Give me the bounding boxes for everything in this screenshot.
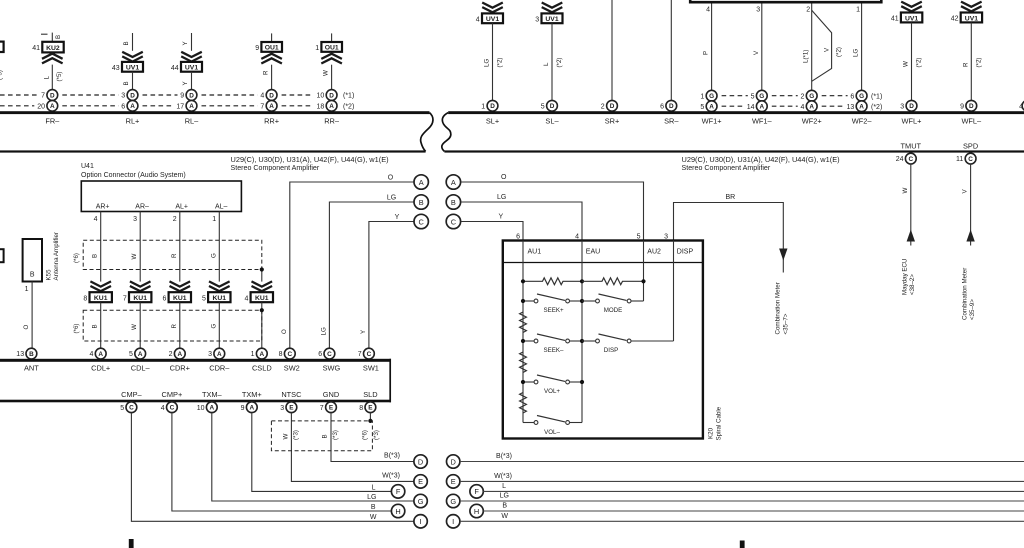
off-page arrow (up) to Combination Meter: [966, 230, 974, 242]
pin 20 A (FR-): [47, 100, 58, 111]
svg-text:UV1: UV1: [905, 15, 918, 22]
connector arrows (female, up): [42, 54, 63, 64]
wire WF1-: [761, 4, 763, 92]
dashed option wire, D row: [0, 94, 314, 96]
svg-text:5: 5: [129, 351, 133, 358]
svg-text:VOL–: VOL–: [544, 429, 560, 436]
svg-text:C: C: [170, 405, 175, 412]
svg-text:OU1: OU1: [325, 45, 339, 52]
resistor on AU1 bus (lower): [520, 393, 527, 413]
svg-text:KU1: KU1: [255, 295, 269, 302]
svg-text:6: 6: [516, 234, 520, 241]
wire B right: [483, 510, 1024, 512]
pin 2 A (CDR+): [174, 348, 185, 359]
shield dashed box (upper): [83, 240, 262, 269]
svg-text:C: C: [451, 217, 457, 226]
svg-text:A: A: [217, 351, 222, 358]
svg-text:9: 9: [241, 405, 245, 412]
connector 4 UV1: [482, 13, 503, 23]
svg-text:SW2: SW2: [284, 363, 300, 372]
svg-text:7: 7: [358, 351, 362, 358]
pin 8 E (SLD): [365, 402, 376, 413]
svg-text:W: W: [902, 188, 909, 194]
svg-text:R: R: [171, 324, 178, 329]
svg-text:I: I: [420, 517, 422, 526]
svg-text:KU1: KU1: [173, 295, 187, 302]
pin 18 A (RR-): [326, 100, 337, 111]
pin 4 A (WF2+): [806, 101, 817, 112]
pin 3 D (RL+): [127, 90, 138, 101]
wire CMP+ to H: [172, 413, 392, 511]
svg-text:B: B: [92, 324, 99, 328]
svg-text:3: 3: [535, 16, 539, 23]
wire SW2: [290, 182, 414, 348]
wire RR+ to amplifier: [271, 65, 273, 90]
svg-text:6: 6: [660, 103, 664, 110]
connector 6 KU1: [169, 292, 191, 302]
svg-text:KU1: KU1: [133, 295, 147, 302]
svg-text:6: 6: [162, 295, 166, 302]
svg-text:5: 5: [541, 103, 545, 110]
svg-text:SLD: SLD: [363, 390, 377, 399]
svg-text:E: E: [329, 405, 334, 412]
wire WF1+: [711, 4, 713, 92]
joint connector D (right half): [447, 455, 460, 468]
connector 9 OU1: [261, 42, 282, 52]
svg-text:D: D: [50, 92, 55, 99]
off-page arrow (down) to Combination Meter: [779, 249, 787, 261]
AU1 bus wire: [522, 241, 524, 423]
shield junction dot: [368, 419, 372, 423]
svg-text:Y: Y: [395, 214, 400, 221]
wire BR from DISP to Combination Meter: [674, 203, 784, 273]
svg-text:MODE: MODE: [604, 307, 623, 314]
svg-text:6: 6: [850, 93, 854, 100]
switch VOL-: [523, 422, 534, 424]
pin 10 A (TXM-): [206, 402, 217, 413]
svg-text:SEEK+: SEEK+: [543, 307, 564, 314]
wire SWG: [329, 202, 413, 348]
svg-text:C: C: [908, 156, 913, 163]
svg-text:WFL+: WFL+: [902, 117, 922, 126]
connector arrows (male, down): [181, 52, 202, 62]
junction dot AU2/R: [641, 279, 645, 283]
svg-text:W(*3): W(*3): [382, 473, 400, 480]
wire TXM+ to F: [252, 413, 392, 492]
svg-text:E: E: [451, 477, 456, 486]
wire CDL- lower: [139, 302, 141, 348]
svg-text:Y: Y: [182, 81, 189, 85]
svg-text:4: 4: [260, 93, 264, 100]
svg-text:C: C: [287, 351, 292, 358]
joint connector A (right half): [446, 175, 460, 189]
svg-text:D: D: [669, 103, 674, 110]
wire SL-: [551, 23, 553, 100]
svg-text:3: 3: [756, 7, 760, 14]
svg-text:H: H: [395, 507, 400, 516]
svg-text:Y: Y: [499, 214, 504, 221]
svg-text:7: 7: [123, 295, 127, 302]
svg-text:KU1: KU1: [94, 295, 108, 302]
pin 5 A (WF1+): [706, 101, 717, 112]
svg-text:A: A: [209, 405, 214, 412]
svg-text:F: F: [474, 487, 479, 496]
svg-text:B(*3): B(*3): [384, 453, 400, 460]
svg-text:SW1: SW1: [363, 363, 379, 372]
svg-text:LG: LG: [387, 194, 396, 201]
svg-text:<35–9>: <35–9>: [969, 299, 976, 320]
svg-text:2: 2: [601, 103, 605, 110]
svg-text:4: 4: [800, 104, 804, 111]
antenna amplifier K55 box: [23, 239, 42, 282]
svg-text:G: G: [210, 324, 217, 329]
svg-text:7: 7: [320, 405, 324, 412]
svg-text:R: R: [962, 62, 969, 67]
svg-text:W(*3): W(*3): [494, 473, 512, 480]
wire FR- to amplifier: [51, 65, 53, 90]
wire B(*3) right: [460, 461, 1024, 463]
svg-text:(*2): (*2): [343, 103, 354, 110]
svg-text:5: 5: [637, 234, 641, 241]
pin 5 G (WF1-): [756, 90, 767, 101]
svg-text:SL+: SL+: [486, 117, 499, 126]
pin 8 C (SW2): [284, 348, 295, 359]
amplifier top edge (right portion): [448, 111, 1024, 114]
svg-text:G: G: [210, 253, 217, 258]
svg-text:A: A: [809, 104, 814, 111]
svg-text:42: 42: [951, 16, 959, 23]
svg-text:O: O: [501, 174, 507, 181]
svg-text:Combination Meter: Combination Meter: [961, 268, 968, 320]
svg-text:(*6): (*6): [361, 430, 368, 440]
svg-text:GND: GND: [323, 390, 339, 399]
wire CDR- upper: [218, 212, 220, 282]
svg-text:DISP: DISP: [604, 347, 618, 354]
svg-text:K20: K20: [708, 427, 715, 439]
header separator line: [503, 262, 703, 264]
svg-text:7: 7: [41, 93, 45, 100]
amplifier bottom edge (left portion): [0, 150, 426, 152]
svg-text:<35–7>: <35–7>: [782, 313, 789, 334]
svg-text:E: E: [368, 405, 373, 412]
svg-text:(*2): (*2): [916, 58, 923, 68]
joint connector A (left half): [414, 175, 428, 189]
pin 6 G (WF2-): [856, 90, 867, 101]
wire WF2+: [811, 4, 813, 92]
svg-text:E: E: [289, 405, 294, 412]
dashed option wire, A row: [722, 105, 844, 107]
svg-text:(*2): (*2): [835, 47, 842, 57]
svg-text:2: 2: [806, 7, 810, 14]
wire CDR+ lower: [179, 302, 181, 348]
pin 6 C (SWG): [324, 348, 335, 359]
svg-text:RL+: RL+: [126, 117, 140, 126]
svg-text:V: V: [823, 47, 830, 52]
svg-text:U29(C), U30(D), U31(A), U42(F): U29(C), U30(D), U31(A), U42(F), U44(G), …: [231, 155, 389, 164]
svg-text:1: 1: [856, 7, 860, 14]
svg-text:44: 44: [171, 65, 179, 72]
wire CDL+ lower: [100, 302, 102, 348]
svg-text:TXM+: TXM+: [242, 390, 262, 399]
svg-text:W: W: [282, 434, 289, 440]
shield junction (upper): [260, 267, 264, 271]
svg-text:4: 4: [706, 7, 710, 14]
junction dot AU1/R: [521, 279, 525, 283]
svg-text:D: D: [269, 92, 274, 99]
wire CDL- upper: [139, 212, 141, 282]
svg-text:B: B: [92, 254, 99, 258]
joint connector I (right half): [447, 515, 460, 528]
wire SL+: [492, 23, 494, 100]
joint connector H (right half): [470, 504, 483, 517]
wire FR- above connector 41: [51, 33, 53, 42]
joint connector C (right half): [446, 214, 460, 228]
wire GND to D: [331, 413, 414, 462]
svg-text:B: B: [123, 81, 130, 85]
svg-text:FR–: FR–: [45, 117, 60, 126]
wire RL- from top: [191, 33, 193, 51]
svg-text:AL+: AL+: [175, 203, 188, 210]
wire RR- to amplifier: [331, 65, 333, 90]
AU2 wire: [643, 241, 645, 302]
pin 2 G (WF2+): [806, 90, 817, 101]
svg-text:UV1: UV1: [965, 15, 978, 22]
svg-text:RL–: RL–: [185, 117, 199, 126]
svg-text:3: 3: [121, 93, 125, 100]
svg-text:CDR+: CDR+: [170, 363, 190, 372]
svg-text:R: R: [171, 253, 178, 258]
svg-text:U41: U41: [81, 163, 94, 170]
pin 1 D (SL+): [487, 100, 498, 111]
svg-text:Option Connector (Audio System: Option Connector (Audio System): [81, 172, 186, 179]
svg-text:10: 10: [197, 405, 205, 412]
svg-text:CMP–: CMP–: [121, 390, 142, 399]
svg-text:2: 2: [169, 351, 173, 358]
wire RL+ from top: [132, 33, 134, 51]
svg-text:8: 8: [279, 351, 283, 358]
svg-text:A: A: [177, 351, 182, 358]
svg-text:BR: BR: [726, 194, 736, 201]
svg-text:5: 5: [700, 104, 704, 111]
svg-text:3: 3: [133, 216, 137, 223]
pin 9 D (RL-): [186, 90, 197, 101]
pin 3 D (WFL+): [906, 100, 917, 111]
svg-text:UV1: UV1: [126, 65, 139, 72]
svg-text:(*2): (*2): [975, 58, 982, 68]
dashed option wire, A row: [0, 105, 314, 107]
partial pin 4 at right edge: [1022, 100, 1024, 111]
svg-text:(*5): (*5): [0, 70, 4, 80]
joint connector E (right half): [447, 475, 460, 488]
pin 24 C (TMUT): [905, 153, 916, 164]
svg-text:AU1: AU1: [528, 248, 542, 255]
svg-text:20: 20: [37, 103, 45, 110]
svg-text:2: 2: [173, 216, 177, 223]
svg-text:13: 13: [847, 104, 855, 111]
connector 8 KU1: [90, 292, 112, 302]
svg-text:9: 9: [960, 103, 964, 110]
svg-text:F: F: [396, 487, 401, 496]
pin 1 G (WF1+): [706, 90, 717, 101]
connector 3 UV1: [542, 13, 563, 23]
svg-text:V: V: [962, 189, 969, 194]
amplifier lower band bottom edge: [0, 400, 391, 403]
steering pad switch box (spiral cable): [503, 241, 703, 439]
svg-text:14: 14: [747, 104, 755, 111]
joint connector E (left half): [414, 475, 427, 488]
joint connector B (right half): [446, 195, 460, 209]
option connector U41 box: [81, 181, 241, 212]
svg-text:4: 4: [1019, 103, 1023, 110]
svg-text:A: A: [759, 104, 764, 111]
pin 9 D (WFL-): [966, 100, 977, 111]
svg-text:UV1: UV1: [545, 16, 558, 23]
EAU bus wire: [581, 241, 583, 423]
svg-text:9: 9: [255, 45, 259, 52]
band break edge (left piece): [421, 113, 433, 152]
svg-text:WF1+: WF1+: [702, 117, 722, 126]
svg-text:UV1: UV1: [486, 16, 499, 23]
svg-text:NTSC: NTSC: [281, 390, 302, 399]
svg-text:A: A: [130, 103, 135, 110]
svg-text:A: A: [189, 103, 194, 110]
connector arrows above 42 UV1 (male, down): [961, 2, 982, 12]
wire O from A to switch AU2: [461, 182, 644, 241]
DISP wire: [673, 241, 675, 342]
switch SEEK-: [523, 340, 534, 342]
connector arrows above 41 UV1 (male, down): [901, 2, 922, 12]
svg-text:Mayday ECU: Mayday ECU: [902, 259, 909, 295]
svg-text:ANT: ANT: [24, 363, 39, 372]
svg-text:B: B: [29, 351, 34, 358]
junction dot EAU/SEEK-: [580, 339, 584, 343]
svg-text:1: 1: [700, 93, 704, 100]
svg-text:18: 18: [317, 103, 325, 110]
joint connector D (left half): [414, 455, 427, 468]
wire SR+: [611, 0, 613, 101]
svg-text:B: B: [419, 198, 424, 207]
svg-text:B: B: [30, 272, 35, 279]
svg-text:C: C: [367, 351, 372, 358]
page-break tick (right): [740, 541, 745, 548]
svg-text:CDL–: CDL–: [131, 363, 151, 372]
svg-text:6: 6: [318, 351, 322, 358]
switch MODE: [582, 300, 596, 302]
shield dashed box (video lines): [271, 421, 372, 451]
amplifier lower band right edge: [389, 359, 391, 403]
svg-text:C: C: [419, 217, 425, 226]
svg-text:13: 13: [16, 351, 24, 358]
svg-text:AR–: AR–: [135, 203, 149, 210]
svg-text:C: C: [129, 405, 134, 412]
svg-text:6: 6: [121, 103, 125, 110]
resistor R (EAU-AU2): [582, 278, 644, 285]
svg-text:(*6): (*6): [73, 253, 80, 263]
pin 14 A (WF1-): [756, 101, 767, 112]
connector 5 KU1: [208, 292, 230, 302]
resistor R (AU1-EAU): [523, 278, 582, 285]
joint connector F (left half): [391, 485, 404, 498]
connector arrows (male, down): [122, 52, 143, 62]
svg-text:A: A: [50, 103, 55, 110]
svg-text:Y: Y: [182, 41, 189, 45]
wire SW1: [369, 222, 414, 349]
pin 7 C (SW1): [364, 348, 375, 359]
wire LG from B to switch EAU: [461, 202, 582, 241]
connector arrows (female, up): [261, 54, 282, 64]
svg-text:G: G: [418, 497, 424, 506]
wire CMP- to I: [131, 413, 414, 522]
wire RR- above connector 1: [331, 33, 333, 42]
option bypass wire V (*2): [812, 10, 832, 81]
svg-text:1: 1: [481, 103, 485, 110]
svg-text:LG: LG: [497, 194, 506, 201]
switch DISP: [582, 340, 596, 342]
svg-text:4: 4: [94, 216, 98, 223]
wire W(*3) right: [460, 480, 1024, 482]
connector 44 UV1: [181, 62, 202, 72]
wire SR-: [670, 0, 672, 101]
svg-text:(*6): (*6): [73, 324, 80, 334]
svg-text:A: A: [259, 351, 264, 358]
svg-text:G: G: [809, 93, 814, 100]
joint connector F (right half): [470, 485, 483, 498]
partial component box at left edge (off-page): [0, 249, 4, 262]
connector 41 KU2: [42, 42, 63, 53]
svg-text:LG: LG: [367, 494, 376, 501]
svg-text:CDL+: CDL+: [91, 363, 110, 372]
svg-text:SWG: SWG: [323, 363, 341, 372]
svg-text:Y: Y: [360, 330, 367, 334]
joint connector B (left half): [414, 195, 428, 209]
svg-text:CSLD: CSLD: [252, 363, 272, 372]
pin 5 A (CDL-): [135, 348, 146, 359]
svg-text:AR+: AR+: [96, 203, 110, 210]
svg-text:(*3): (*3): [292, 430, 299, 440]
wire SLD to shield: [369, 413, 371, 421]
svg-text:(*3): (*3): [373, 430, 380, 440]
svg-text:SEEK–: SEEK–: [544, 347, 565, 354]
svg-text:4: 4: [575, 234, 579, 241]
wire V to Combination Meter: [970, 164, 972, 246]
joint connector I (left half): [414, 515, 427, 528]
svg-text:(*2): (*2): [497, 58, 504, 68]
svg-text:A: A: [98, 351, 103, 358]
svg-text:4: 4: [244, 295, 248, 302]
svg-text:1: 1: [212, 216, 216, 223]
svg-text:B: B: [322, 434, 329, 438]
svg-text:K55: K55: [46, 269, 53, 281]
resistor on AU1 bus (middle): [520, 352, 527, 372]
pin 9 A (TXM+): [246, 402, 257, 413]
connector 7 KU1: [129, 292, 151, 302]
svg-text:43: 43: [112, 65, 120, 72]
svg-text:7: 7: [260, 103, 264, 110]
svg-text:B: B: [502, 503, 507, 510]
svg-text:D: D: [909, 103, 914, 110]
svg-text:AU2: AU2: [647, 248, 661, 255]
wire CDR+ upper: [179, 212, 181, 282]
pin 7 D (FR-): [47, 90, 58, 101]
svg-text:SR–: SR–: [664, 117, 679, 126]
resistor on AU1 bus (upper): [520, 312, 527, 332]
junction dot AU1/VOL+: [521, 380, 525, 384]
svg-text:C: C: [968, 156, 973, 163]
wire WFL-: [970, 22, 972, 100]
svg-text:CMP+: CMP+: [162, 390, 183, 399]
switch SEEK+: [523, 300, 534, 302]
svg-text:UV1: UV1: [185, 65, 198, 72]
